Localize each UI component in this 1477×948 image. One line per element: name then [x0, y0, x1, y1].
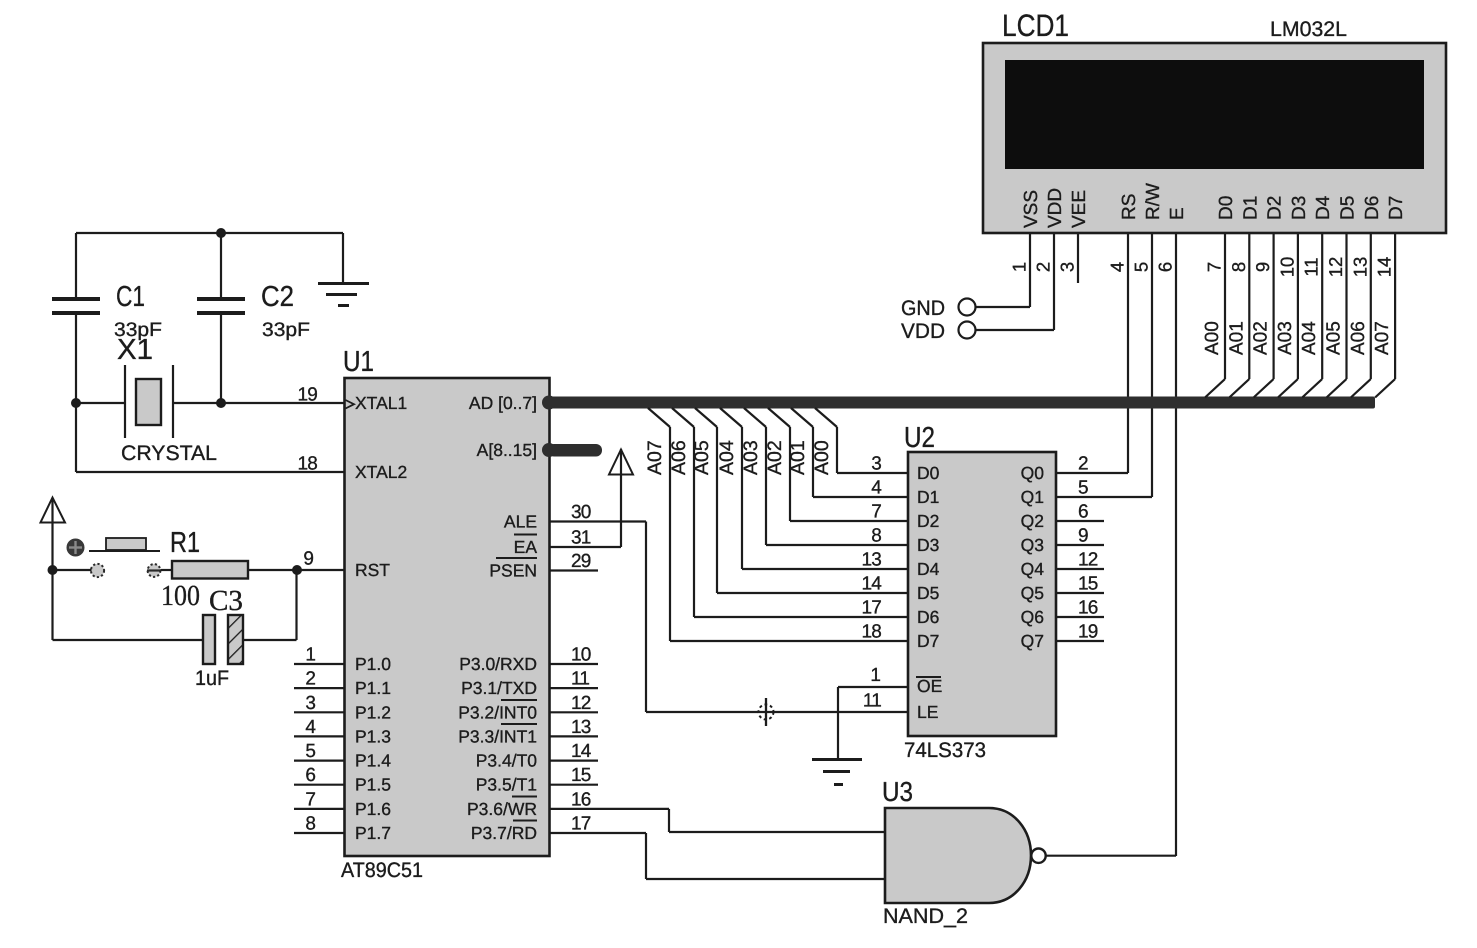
pin stub P1.6 (pin 7) [294, 789, 344, 810]
U2 left pin labels D0-D7 [917, 463, 940, 651]
wire R1 to RST pin [248, 569, 345, 571]
svg-text:P3.3/INT1: P3.3/INT1 [458, 726, 537, 746]
svg-text:D4: D4 [1313, 195, 1334, 220]
nand output bubble [1031, 849, 1045, 863]
svg-text:14: 14 [571, 741, 592, 762]
label LCD1 [1002, 8, 1069, 43]
wire RS net (LCD pin4 to U2 Q0) [1056, 233, 1128, 473]
U2 Q pin stub [1056, 616, 1104, 618]
LCD pin number 7 [1204, 262, 1225, 272]
bus entry + wire A01 to U2 [791, 408, 908, 497]
svg-text:A04: A04 [716, 440, 738, 475]
U2 right pin labels Q0-Q7 [1021, 463, 1045, 651]
terminal VDD [959, 322, 976, 339]
wire LCD D0 to bus [1205, 233, 1225, 398]
svg-text:2: 2 [1033, 262, 1054, 272]
U2 pin number 4 [871, 478, 882, 499]
label LM032L [1270, 18, 1347, 41]
svg-text:VSS: VSS [1021, 190, 1042, 228]
svg-text:P3.2/INT0: P3.2/INT0 [458, 702, 537, 722]
svg-text:Q2: Q2 [1021, 511, 1044, 531]
U2 label OE [917, 676, 942, 696]
U2 pin number 2 (Q) [1078, 454, 1088, 475]
capacitor C3 [203, 615, 243, 664]
svg-text:13: 13 [861, 550, 881, 571]
svg-text:Q7: Q7 [1021, 631, 1044, 651]
svg-text:D7: D7 [917, 631, 939, 651]
svg-text:12: 12 [1078, 550, 1098, 571]
wire OE to ground [838, 687, 908, 759]
svg-text:7: 7 [305, 789, 316, 810]
U2 Q pin stub [1056, 544, 1104, 546]
LCD pin number 13 [1349, 257, 1370, 278]
net label A02 [764, 440, 786, 475]
svg-text:CRYSTAL: CRYSTAL [121, 442, 217, 465]
bus entry + wire A02 to U2 [768, 408, 908, 521]
svg-text:D5: D5 [1338, 196, 1359, 220]
LCD pin label D0 [1216, 196, 1237, 220]
net label A00 [811, 440, 833, 475]
pin stub P3.1/TXD (pin 11) [550, 669, 598, 690]
pin number 16 (P3.6/WR) [571, 790, 591, 811]
label GND [901, 297, 945, 320]
pin number 31 (EA) [571, 528, 591, 549]
net label A03 [740, 440, 762, 475]
value 100 (R1) [161, 580, 200, 612]
nand gate U3 body [885, 808, 1031, 903]
bus entry + wire A04 to U2 [720, 408, 908, 569]
svg-text:6: 6 [1155, 262, 1176, 272]
overline INT0 [501, 699, 537, 701]
svg-text:A05: A05 [1324, 321, 1345, 355]
node XTAL1 net [71, 398, 226, 408]
wire P3.6/WR to NAND input 1 [550, 809, 885, 832]
svg-text:5: 5 [1078, 478, 1088, 499]
LCD pin label D7 [1386, 196, 1407, 220]
wire ALE to LE (down) [550, 522, 646, 713]
svg-text:4: 4 [1107, 262, 1128, 272]
svg-text:P1.0: P1.0 [355, 654, 391, 674]
svg-text:A01: A01 [787, 440, 809, 475]
svg-text:P1.2: P1.2 [355, 702, 391, 722]
svg-text:Q6: Q6 [1021, 607, 1044, 627]
svg-text:P1.5: P1.5 [355, 775, 391, 795]
wire GND to LCD pin1 [976, 306, 1031, 308]
LCD pin label VDD [1045, 188, 1066, 228]
svg-text:A07: A07 [1372, 321, 1393, 355]
svg-text:LE: LE [917, 702, 938, 722]
LCD pin label D2 [1265, 196, 1286, 220]
LCD pin number 5 [1131, 262, 1152, 272]
svg-text:6: 6 [305, 765, 316, 786]
bus entry + wire A06 to U2 [672, 408, 908, 617]
U2 pin number 15 (Q) [1078, 574, 1098, 595]
wire LCD D5 to bus [1327, 233, 1347, 398]
LCD pin number 10 [1276, 257, 1297, 278]
net label A05 (LCD side) [1324, 321, 1345, 355]
net label A00 (LCD side) [1202, 321, 1223, 355]
mcu U1 AT89C51 body [345, 378, 550, 856]
overline INT1 [501, 723, 537, 725]
overline RD [513, 820, 537, 822]
wire LCD D1 to bus [1229, 233, 1249, 398]
svg-text:3: 3 [1057, 262, 1078, 272]
svg-text:3: 3 [871, 454, 881, 475]
svg-text:6: 6 [1078, 502, 1088, 523]
svg-text:4: 4 [871, 478, 882, 499]
svg-text:10: 10 [571, 645, 591, 666]
svg-text:P1.6: P1.6 [355, 799, 391, 819]
power arrow (reset) [41, 498, 66, 571]
svg-text:P3.7/RD: P3.7/RD [471, 823, 537, 843]
LCD pin label D6 [1362, 196, 1383, 220]
svg-text:5: 5 [1131, 262, 1152, 272]
U2 pin number 3 [871, 454, 881, 475]
wire button to R1 [161, 569, 173, 571]
svg-text:P3.1/TXD: P3.1/TXD [461, 678, 537, 698]
net label A06 (LCD side) [1348, 321, 1369, 355]
label U1 [343, 346, 374, 378]
svg-text:11: 11 [863, 691, 881, 712]
LCD pin 1 stub [1029, 233, 1031, 307]
pushbutton actuator [67, 539, 85, 557]
net label A01 (LCD side) [1226, 321, 1247, 355]
svg-text:A07: A07 [644, 440, 666, 475]
svg-text:7: 7 [871, 502, 881, 523]
value 33pF (C2) [262, 319, 310, 341]
svg-text:GND: GND [901, 297, 945, 320]
svg-text:9: 9 [303, 549, 314, 570]
net label A06 [668, 440, 690, 475]
svg-text:U1: U1 [343, 346, 374, 378]
pin stub P1.4 (pin 5) [294, 741, 344, 762]
crystal X1 [125, 365, 173, 438]
svg-text:C3: C3 [209, 585, 243, 617]
U2 label LE [917, 702, 938, 722]
U2 pin number 17 [861, 598, 881, 619]
svg-text:A02: A02 [1251, 321, 1272, 355]
svg-text:A03: A03 [740, 440, 762, 475]
svg-text:1: 1 [1009, 262, 1030, 272]
svg-text:D0: D0 [1216, 196, 1237, 220]
wire XTAL2 net [76, 403, 345, 472]
svg-text:8: 8 [871, 526, 881, 547]
U2 pin number 14 [861, 574, 882, 595]
svg-text:14: 14 [1374, 257, 1395, 278]
wire R/W net (LCD pin5 to U2 Q1) [1056, 233, 1152, 497]
svg-text:D1: D1 [917, 487, 939, 507]
svg-text:1uF: 1uF [195, 667, 229, 690]
net label A01 [787, 440, 809, 475]
pushbutton terminal 2 [147, 564, 161, 577]
svg-text:Q4: Q4 [1021, 559, 1045, 579]
wire LCD D3 to bus [1278, 233, 1298, 398]
svg-text:12: 12 [571, 693, 591, 714]
XTAL1 clock chevron [346, 400, 355, 409]
pin stub P1.2 (pin 3) [294, 693, 344, 714]
svg-text:1: 1 [870, 665, 881, 686]
label NAND_2 [883, 905, 968, 928]
LCD pin number 3 [1057, 262, 1078, 272]
svg-text:U3: U3 [882, 776, 913, 807]
svg-text:A05: A05 [691, 440, 713, 475]
net label A04 (LCD side) [1299, 321, 1320, 355]
svg-text:D1: D1 [1240, 196, 1261, 220]
terminal GND [959, 299, 976, 316]
svg-text:100: 100 [161, 580, 200, 612]
svg-text:A00: A00 [1202, 321, 1223, 355]
svg-text:R/W: R/W [1143, 183, 1164, 220]
overline WR [512, 796, 537, 798]
net label A04 [716, 440, 738, 475]
svg-text:3: 3 [305, 693, 316, 714]
svg-text:D5: D5 [917, 583, 939, 603]
resistor R1 [172, 561, 248, 579]
svg-text:A01: A01 [1226, 321, 1247, 355]
net label A05 [691, 440, 713, 475]
svg-text:A06: A06 [1348, 321, 1369, 355]
lcd LCD1 body [983, 43, 1446, 233]
node RST left [48, 565, 58, 575]
pin number 17 (P3.7/RD) [571, 814, 591, 835]
svg-text:RST: RST [355, 560, 390, 580]
pin stub P3.3/INT1 (pin 13) [550, 717, 598, 738]
label R1 [170, 527, 200, 559]
U2 pin number 1 (OE) [870, 665, 881, 686]
pushbutton bar [89, 550, 160, 552]
wire reset lower left [53, 570, 204, 640]
net label A02 (LCD side) [1251, 321, 1272, 355]
svg-text:15: 15 [571, 765, 591, 786]
svg-text:D2: D2 [917, 511, 939, 531]
svg-text:AT89C51: AT89C51 [341, 859, 423, 882]
svg-text:P1.3: P1.3 [355, 726, 391, 746]
LCD pin label RS [1119, 194, 1140, 220]
U2 Q pin stub [1056, 568, 1104, 570]
svg-text:D2: D2 [1265, 196, 1286, 220]
pin number 30 (ALE) [571, 502, 591, 523]
wire top rail C1-C2-ground [76, 232, 343, 234]
svg-text:P3.0/RXD: P3.0/RXD [459, 654, 537, 674]
LCD pin number 9 [1252, 262, 1273, 272]
svg-text:14: 14 [861, 574, 882, 595]
svg-text:D3: D3 [1289, 196, 1310, 220]
U2 pin number 9 (Q) [1078, 526, 1088, 547]
svg-text:ALE: ALE [504, 512, 537, 532]
label AT89C51 [341, 859, 423, 882]
LCD pin label R/W [1143, 183, 1164, 220]
svg-text:X1: X1 [117, 334, 153, 366]
latch U2 74LS373 body [908, 452, 1056, 736]
svg-text:P3.4/T0: P3.4/T0 [476, 751, 538, 771]
bus entry + wire A00 to U2 [815, 408, 908, 473]
node RST right [292, 565, 302, 575]
net label A07 [644, 440, 666, 475]
svg-text:74LS373: 74LS373 [904, 739, 986, 762]
LCD pin number 12 [1325, 257, 1346, 278]
pin number 18 [297, 454, 317, 475]
wire C3 to RST node [243, 570, 297, 640]
lcd screen [1005, 60, 1424, 169]
svg-text:16: 16 [1078, 598, 1098, 619]
net label A03 (LCD side) [1275, 321, 1296, 355]
U2 pin number 5 (Q) [1078, 478, 1088, 499]
wire LCD D2 to bus [1254, 233, 1274, 398]
svg-text:13: 13 [1349, 257, 1370, 278]
svg-text:VDD: VDD [901, 320, 945, 343]
svg-text:R1: R1 [170, 527, 200, 559]
pin stub P1.0 (pin 1) [294, 645, 344, 666]
LCD pin number 8 [1228, 262, 1249, 272]
svg-text:D7: D7 [1386, 196, 1407, 220]
svg-text:A03: A03 [1275, 321, 1296, 355]
svg-text:XTAL2: XTAL2 [355, 462, 407, 482]
svg-text:33pF: 33pF [262, 319, 310, 341]
wire P3.7/RD to NAND input 2 [550, 833, 885, 879]
bus entry + wire A07 to U2 [648, 408, 908, 641]
label U2 [904, 422, 935, 454]
pin stub P1.3 (pin 4) [294, 717, 344, 738]
wire crystal right to node [173, 402, 221, 404]
svg-text:4: 4 [305, 717, 316, 738]
LCD pin label VSS [1021, 190, 1042, 228]
wire VDD to LCD pin2 [976, 329, 1055, 331]
overline OE [916, 676, 941, 678]
svg-text:18: 18 [297, 454, 317, 475]
svg-text:29: 29 [571, 551, 591, 572]
svg-text:5: 5 [305, 741, 316, 762]
svg-text:19: 19 [297, 385, 317, 406]
svg-text:P1.7: P1.7 [355, 823, 391, 843]
svg-text:11: 11 [571, 669, 589, 690]
pin stub P1.7 (pin 8) [294, 814, 344, 835]
svg-text:A02: A02 [764, 440, 786, 475]
U2 Q pin stub [1056, 640, 1104, 642]
svg-text:E: E [1167, 207, 1188, 220]
svg-text:D6: D6 [917, 607, 939, 627]
pin stub P3.4/T0 (pin 14) [550, 741, 598, 762]
LCD pin label VEE [1069, 190, 1090, 228]
label C3 [209, 585, 243, 617]
pin stub P3.2/INT0 (pin 12) [550, 693, 598, 714]
U1 left pin labels [355, 393, 407, 843]
LCD pin number 4 [1107, 262, 1128, 272]
svg-text:Q0: Q0 [1021, 463, 1045, 483]
U2 Q pin stub [1056, 592, 1104, 594]
U2 pin number 16 (Q) [1078, 598, 1098, 619]
ground (U2 OE) [812, 758, 862, 786]
label VDD [901, 320, 945, 343]
LCD pin 3 stub (VEE) [1077, 233, 1079, 283]
svg-text:Q3: Q3 [1021, 535, 1044, 555]
pushbutton terminal 1 [91, 564, 104, 577]
pin number 19 [297, 385, 317, 406]
label C2 [261, 281, 294, 313]
svg-text:D6: D6 [1362, 196, 1383, 220]
LCD pin number 6 [1155, 262, 1176, 272]
U2 pin number 11 (LE) [863, 691, 881, 712]
svg-text:XTAL1: XTAL1 [355, 393, 407, 413]
net label A07 (LCD side) [1372, 321, 1393, 355]
svg-text:P1.4: P1.4 [355, 751, 391, 771]
svg-text:VEE: VEE [1069, 190, 1090, 228]
svg-text:9: 9 [1078, 526, 1088, 547]
label U3 [882, 776, 913, 807]
svg-text:11: 11 [1301, 257, 1322, 276]
pushbutton cap [106, 538, 146, 550]
wire node to button [56, 569, 92, 571]
svg-text:17: 17 [571, 814, 591, 835]
U2 pin number 8 [871, 526, 881, 547]
value 1uF (C3) [195, 667, 229, 690]
svg-text:OE: OE [917, 676, 942, 696]
svg-text:A00: A00 [811, 440, 833, 475]
svg-text:A04: A04 [1299, 321, 1320, 355]
svg-text:7: 7 [1204, 262, 1225, 272]
svg-text:12: 12 [1325, 257, 1346, 278]
wire EA to power [550, 449, 621, 547]
U2 pin number 7 [871, 502, 881, 523]
svg-text:16: 16 [571, 790, 591, 811]
U2 pin number 18 [861, 622, 881, 643]
svg-text:C1: C1 [116, 281, 145, 313]
svg-text:15: 15 [1078, 574, 1098, 595]
pin number 9 [303, 549, 314, 570]
label X1 [117, 334, 153, 366]
wire LCD D4 to bus [1302, 233, 1322, 398]
svg-text:19: 19 [1078, 622, 1098, 643]
pin stub PSEN (29) [550, 551, 598, 572]
svg-text:2: 2 [305, 669, 316, 690]
LCD pin label D4 [1313, 195, 1334, 220]
svg-text:LM032L: LM032L [1270, 18, 1347, 41]
svg-text:D3: D3 [917, 535, 939, 555]
origin marker on LE wire [759, 698, 774, 726]
bus AD[0..7] [542, 396, 1375, 410]
overline EA [514, 534, 537, 536]
LCD pin label D5 [1338, 196, 1359, 220]
svg-text:Q1: Q1 [1021, 487, 1044, 507]
pin stub P3.0/RXD (pin 10) [550, 645, 598, 666]
svg-text:A[8..15]: A[8..15] [477, 440, 537, 460]
wire XTAL1 to U1 pin 19 [221, 402, 345, 404]
LCD pin 2 stub [1053, 233, 1055, 330]
label C1 [116, 281, 145, 313]
wire LE to ALE [646, 711, 908, 713]
U2 pin number 13 [861, 550, 881, 571]
label CRYSTAL [121, 442, 217, 465]
svg-text:10: 10 [1276, 257, 1297, 278]
svg-text:C2: C2 [261, 281, 294, 313]
LCD pin number 11 [1301, 257, 1322, 276]
U1 right pin labels [458, 393, 537, 843]
svg-text:P3.5/T1: P3.5/T1 [476, 775, 537, 795]
LCD pin number 14 [1374, 257, 1395, 278]
svg-text:18: 18 [861, 622, 881, 643]
wire LCD D6 to bus [1351, 233, 1371, 398]
svg-text:AD [0..7]: AD [0..7] [469, 393, 537, 413]
ground (oscillator) [318, 233, 369, 307]
LCD pin label E [1167, 207, 1188, 220]
LCD pin label D1 [1240, 196, 1261, 220]
svg-text:2: 2 [1078, 454, 1088, 475]
value 33pF (C1) [114, 319, 162, 341]
pin stub P3.5/T1 (pin 15) [550, 765, 598, 786]
LCD pin label D3 [1289, 196, 1310, 220]
svg-text:13: 13 [571, 717, 591, 738]
svg-text:Q5: Q5 [1021, 583, 1044, 603]
pin stub P1.1 (pin 2) [294, 669, 344, 690]
